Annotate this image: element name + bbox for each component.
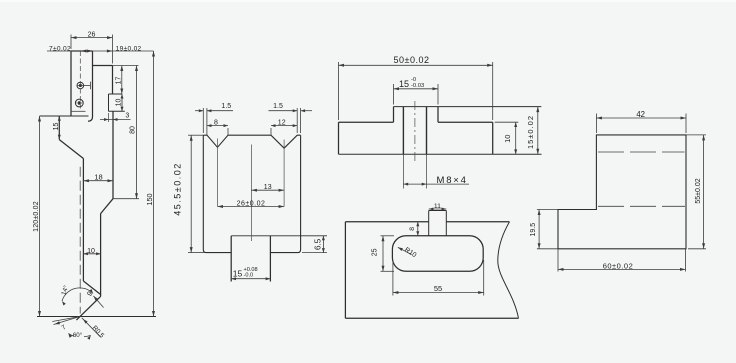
svg-text:25: 25	[371, 248, 378, 256]
svg-text:80: 80	[129, 126, 136, 134]
dimension 150	[145, 51, 155, 317]
dimension 15±0.02 (holder)	[526, 107, 540, 155]
svg-text:19.5: 19.5	[530, 223, 537, 237]
svg-text:-0.03: -0.03	[411, 83, 424, 89]
svg-text:55: 55	[434, 284, 442, 293]
base view: break line	[498, 222, 519, 319]
dimension 12 (notch)	[271, 119, 297, 135]
dimension 9	[86, 290, 103, 307]
svg-text:26: 26	[88, 31, 96, 38]
die view: notch 2 centerline	[283, 140, 285, 207]
svg-text:60±0.02: 60±0.02	[603, 261, 634, 270]
svg-text:8: 8	[214, 119, 218, 126]
block view: hidden line 2	[598, 205, 685, 207]
svg-text:12: 12	[278, 119, 286, 126]
dimension 10 (plate)	[495, 122, 519, 154]
dimension 11	[429, 203, 447, 211]
block view: hidden line 1	[598, 151, 685, 153]
svg-text:10: 10	[87, 248, 95, 255]
dimension 13	[251, 184, 284, 192]
base view: plate outline	[345, 222, 518, 319]
left view: right side tab	[109, 94, 125, 111]
svg-text:19±0.02: 19±0.02	[116, 46, 142, 53]
base view: slot	[392, 236, 483, 271]
holder view: boss	[394, 107, 542, 123]
svg-text:45.5±0.02: 45.5±0.02	[173, 162, 183, 215]
dimension 10 (tab)	[115, 94, 123, 111]
svg-text:8: 8	[409, 227, 416, 231]
dimension 1.5 left	[195, 103, 233, 135]
dimension 42	[596, 110, 686, 133]
dimension 17	[113, 66, 139, 95]
thread callout M8x4	[403, 175, 469, 186]
svg-text:17: 17	[115, 77, 122, 85]
svg-text:150: 150	[145, 193, 154, 205]
dimension 55	[393, 260, 484, 296]
left view: hole centerline	[79, 51, 81, 112]
svg-text:3: 3	[125, 113, 129, 120]
dimension 50±0.02	[339, 55, 493, 120]
left view: screw hole 1	[77, 82, 90, 90]
svg-text:120±0.02: 120±0.02	[33, 201, 40, 232]
dimension 26	[71, 31, 113, 63]
dimension 26±0.02	[218, 200, 285, 208]
block view: outline	[558, 135, 686, 249]
die view: stem	[231, 236, 327, 282]
dimension 45.5±0.02	[173, 135, 205, 252]
svg-text:7±0.02: 7±0.02	[49, 46, 71, 53]
left view: hidden dashed line on shank	[79, 167, 81, 314]
dimension 15 -0/-0.03	[394, 77, 439, 105]
dimension 120±0.02	[33, 116, 41, 317]
holder view: tapped hole M8	[403, 107, 426, 189]
radius R0.5 leader	[82, 318, 106, 340]
dimension 1.5 right	[269, 103, 313, 133]
svg-text:10: 10	[115, 99, 122, 107]
holder view: hole centerline	[414, 101, 416, 162]
svg-text:15: 15	[399, 79, 409, 89]
dimension 80	[113, 66, 139, 199]
baseline	[37, 316, 156, 318]
die view: notch 1 centerline	[217, 139, 219, 207]
svg-text:M8×4: M8×4	[437, 175, 468, 186]
dimension 10 (shank)	[83, 248, 100, 256]
dimension 15 tol (stem)	[231, 267, 270, 280]
dimension 7 (tip)	[52, 317, 80, 332]
svg-text:50±0.02: 50±0.02	[394, 55, 430, 65]
dimension 15 (ledge)	[53, 116, 61, 140]
dimension 3	[100, 113, 131, 123]
angle 60° arc	[68, 332, 90, 340]
svg-text:55±0.02: 55±0.02	[695, 178, 702, 203]
dimension 19.5	[530, 210, 558, 249]
die view: center axis	[250, 145, 252, 242]
die view: outline	[203, 135, 300, 252]
svg-text:-0.0: -0.0	[244, 272, 254, 278]
radius R10 leader	[398, 246, 418, 259]
angle 14° arc	[60, 284, 93, 305]
dimension 25	[371, 236, 394, 271]
dimension 55±0.02 (block)	[686, 135, 706, 249]
svg-text:6.5: 6.5	[313, 238, 322, 250]
svg-text:11: 11	[434, 203, 441, 210]
dimension 8 (notch depth)	[409, 222, 419, 236]
svg-text:15: 15	[53, 123, 60, 131]
svg-text:10: 10	[503, 135, 512, 143]
dimension 6.5	[313, 236, 325, 253]
svg-text:13: 13	[264, 184, 272, 191]
svg-text:15: 15	[233, 269, 243, 279]
svg-text:1.5: 1.5	[221, 103, 231, 110]
svg-text:1.5: 1.5	[273, 103, 283, 110]
dimension 8 (notch)	[207, 119, 228, 135]
dimension 18	[83, 173, 113, 183]
svg-text:15±0.02: 15±0.02	[526, 115, 535, 149]
svg-text:60°: 60°	[73, 332, 83, 339]
svg-text:42: 42	[636, 110, 645, 119]
left view: punch body outline	[71, 51, 113, 121]
left view: screw hole 2	[71, 99, 86, 111]
svg-text:18: 18	[94, 173, 102, 182]
holder view: plate outline	[339, 122, 542, 154]
left view: clamp ledge	[40, 116, 89, 159]
left view: tip bevel edges	[76, 281, 100, 320]
dimension 60±0.02	[558, 249, 686, 272]
svg-text:26±0.02: 26±0.02	[237, 200, 266, 207]
base view: key notch	[429, 211, 447, 236]
dimension 7±0.02 / 19±0.02	[47, 46, 154, 53]
left view: shank edges	[83, 111, 113, 294]
